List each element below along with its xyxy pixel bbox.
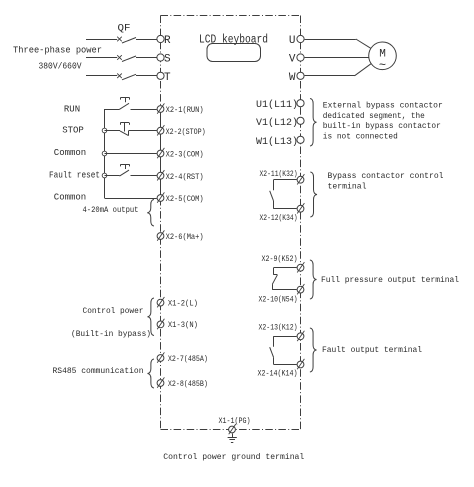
- svg-text:X2-14(K14): X2-14(K14): [258, 371, 298, 379]
- svg-text:X1-3(N): X1-3(N): [168, 321, 198, 330]
- svg-text:S: S: [164, 54, 171, 66]
- svg-text:X2-12(K34): X2-12(K34): [260, 215, 298, 223]
- svg-text:RS485 communication: RS485 communication: [53, 367, 144, 376]
- svg-text:~: ~: [379, 59, 386, 73]
- svg-text:X2-8(485B): X2-8(485B): [168, 380, 208, 389]
- svg-text:RUN: RUN: [64, 105, 80, 115]
- svg-text:V: V: [289, 54, 296, 66]
- svg-text:Control power: Control power: [83, 307, 144, 316]
- svg-text:4-20mA output: 4-20mA output: [83, 206, 139, 215]
- svg-text:X2-10(N54): X2-10(N54): [259, 297, 298, 305]
- svg-text:X2-3(COM): X2-3(COM): [166, 150, 204, 159]
- svg-text:X2-1(RUN): X2-1(RUN): [166, 106, 204, 115]
- svg-text:Bypass contactor control: Bypass contactor control: [328, 172, 444, 181]
- svg-text:V1(L12): V1(L12): [256, 117, 298, 129]
- svg-text:terminal: terminal: [328, 183, 367, 192]
- svg-text:Three-phase power: Three-phase power: [13, 46, 102, 56]
- svg-text:STOP: STOP: [62, 126, 84, 136]
- svg-text:(Built-in bypass): (Built-in bypass): [71, 330, 151, 339]
- svg-text:X1-1(PG): X1-1(PG): [219, 417, 251, 426]
- svg-text:U: U: [289, 35, 296, 47]
- svg-text:Common: Common: [54, 193, 86, 203]
- svg-text:External bypass contactor: External bypass contactor: [323, 102, 443, 111]
- svg-text:X2-6(Ma+): X2-6(Ma+): [166, 233, 204, 242]
- svg-text:Control power ground terminal: Control power ground terminal: [163, 452, 304, 462]
- svg-text:X2-2(STOP): X2-2(STOP): [166, 128, 206, 137]
- svg-text:dedicated segment, the: dedicated segment, the: [323, 112, 425, 121]
- svg-text:W: W: [289, 72, 296, 84]
- svg-text:built-in bypass contactor: built-in bypass contactor: [323, 122, 441, 131]
- svg-text:X2-9(K52): X2-9(K52): [262, 256, 298, 264]
- svg-text:QF: QF: [118, 24, 131, 35]
- svg-text:X2-4(RST): X2-4(RST): [166, 173, 204, 182]
- svg-text:X1-2(L): X1-2(L): [168, 299, 198, 308]
- svg-text:R: R: [164, 35, 171, 47]
- svg-text:Fault output terminal: Fault output terminal: [322, 346, 422, 355]
- svg-text:Fault reset: Fault reset: [49, 171, 100, 181]
- svg-text:U1(L11): U1(L11): [256, 99, 298, 111]
- svg-text:Common: Common: [54, 148, 86, 158]
- svg-text:X2-11(K32): X2-11(K32): [260, 171, 298, 179]
- svg-text:T: T: [164, 72, 171, 84]
- svg-text:Full pressure output terminal: Full pressure output terminal: [321, 276, 459, 285]
- svg-text:is not connected: is not connected: [323, 132, 398, 141]
- svg-text:X2-7(485A): X2-7(485A): [168, 355, 208, 364]
- svg-text:X2-13(K12): X2-13(K12): [259, 325, 298, 333]
- svg-text:W1(L13): W1(L13): [256, 136, 298, 148]
- svg-text:X2-5(COM): X2-5(COM): [166, 195, 204, 204]
- svg-text:380V/660V: 380V/660V: [39, 62, 83, 72]
